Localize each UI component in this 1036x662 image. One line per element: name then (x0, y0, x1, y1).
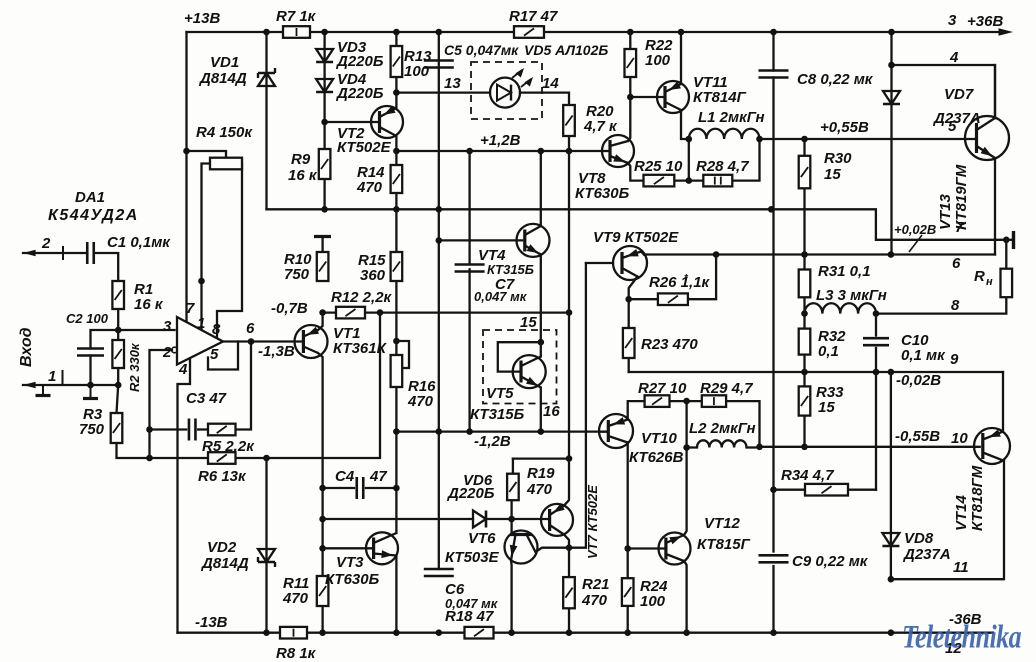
junction bottom rail C6 (436, 629, 443, 636)
wire C3-R5 link (198, 428, 208, 430)
resistor R5 2.2k (208, 424, 236, 436)
wire VT12 base link (628, 547, 666, 549)
inductor L2 2uH (697, 440, 747, 447)
resistor R1 16k (112, 281, 124, 309)
ground chassis bar at output (1006, 239, 1012, 241)
wire R13 bottom to LED line (395, 77, 397, 93)
svg-text:VT12: VT12 (704, 515, 741, 532)
wire VT3 emitter down (395, 556, 397, 633)
svg-text:10: 10 (951, 430, 968, 447)
wire VT2 emitter up (395, 93, 397, 108)
junction -1.2V C7 (466, 428, 473, 435)
junction node209 C5/C6 (436, 206, 443, 213)
wire C8-C9 column (772, 209, 774, 551)
wire R20 column down to node312 (568, 151, 570, 313)
capacitor C4 47 (357, 477, 364, 499)
resistor R11 470 (317, 576, 329, 606)
wire C7 bottom to -1.2V (468, 269, 470, 431)
svg-text:14: 14 (542, 75, 559, 92)
junction R11 bottom rail (319, 629, 326, 636)
wire VT14 collector up (1002, 372, 1004, 432)
resistor R7 1k (283, 26, 310, 38)
resistor R29 4.7 (702, 395, 726, 407)
svg-text:VD1: VD1 (210, 54, 239, 71)
svg-text:VT10: VT10 (641, 430, 678, 447)
wire L2 right link (747, 446, 760, 448)
svg-text:15: 15 (824, 166, 841, 183)
wire op-amp pin2 to C3/R5 line (150, 350, 173, 458)
chassis bar R10 top (321, 237, 323, 253)
wire VT10 collector down (627, 443, 629, 549)
transistor VT5 KT315B (513, 355, 546, 388)
svg-text:КТ630Б: КТ630Б (325, 571, 380, 588)
wire VT6 collector link (536, 548, 570, 552)
wire VT4 emitter down to VT5 (pin15) (540, 255, 542, 343)
wire C3 left link (150, 428, 187, 430)
svg-text:DA1: DA1 (75, 189, 105, 206)
junction -1.2V C6 column (436, 428, 443, 435)
junction pin9 C10 (873, 369, 880, 376)
wire VT7 emitter up (564, 459, 569, 506)
resistor R22 100 (625, 49, 637, 77)
svg-text:+36В: +36В (967, 13, 1003, 30)
svg-text:КТ819ГМ: КТ819ГМ (953, 164, 970, 230)
svg-text:VT7 КТ502Е: VT7 КТ502Е (585, 485, 600, 559)
svg-text:-0,02В: -0,02В (896, 372, 941, 389)
wire VT8 base link (602, 150, 610, 152)
pin 3 output arrow +36V (999, 28, 1014, 35)
svg-text:VD5 АЛ102Б: VD5 АЛ102Б (524, 42, 608, 58)
junction VD6/R19/VT6 (508, 516, 515, 523)
junction VT9 collector/R26/R23 (625, 296, 632, 303)
resistor R21 470 (563, 577, 575, 608)
svg-text:L1 2мкГн: L1 2мкГн (698, 109, 765, 126)
junction C4 right (393, 485, 400, 492)
wire R3 top link (117, 385, 119, 413)
junction bottom rail VD2 (263, 629, 270, 636)
wire VT10 emitter up to R27 (628, 401, 645, 419)
wire R33 top link (803, 372, 805, 386)
junction pin6 VD7 (888, 251, 895, 258)
svg-text:R31 0,1: R31 0,1 (818, 263, 871, 280)
junction bottom rail R21 (566, 629, 573, 636)
wire R33 bottom to 10line (803, 416, 805, 447)
resistor R23 470 (623, 328, 635, 358)
svg-text:470: 470 (407, 393, 434, 410)
wire R23 bottom to pin9 line (628, 358, 630, 372)
junction top rail R13 (393, 29, 400, 36)
pin 1 tick mark (62, 370, 64, 385)
wire VT4 base line (439, 239, 525, 241)
wire VT2 collector down (395, 136, 397, 151)
resistor R31 0.1 (799, 270, 811, 298)
junction node312 VT1 emitter/R10 (319, 309, 326, 316)
svg-text:R4 150к: R4 150к (196, 124, 253, 141)
resistor R32 0.1 (799, 329, 811, 355)
wire VT3 base link (323, 547, 374, 549)
wire VT8 collector up (628, 97, 630, 141)
junction pin1/R4 left (198, 278, 205, 285)
wire R13 top (395, 32, 397, 46)
capacitor C5 0.047uF (424, 61, 454, 68)
wire bias node line y=209 (267, 208, 772, 210)
svg-text:13: 13 (444, 75, 461, 92)
wire feedback line y=458 (117, 443, 209, 458)
wire R25 right to L1 left (674, 179, 689, 181)
diode VD4 D220B (316, 79, 333, 92)
svg-text:7: 7 (186, 300, 195, 317)
pin 1 input arrow (23, 382, 36, 388)
svg-text:R17 47: R17 47 (509, 8, 558, 25)
resistor R33 15 (799, 386, 811, 415)
svg-text:100: 100 (404, 63, 430, 80)
svg-text:15: 15 (818, 399, 835, 416)
svg-text:470: 470 (581, 592, 608, 609)
wire VT1 collector to VD6 line (321, 488, 323, 633)
junction node312 R12 right (377, 309, 384, 316)
wire VD7 branch (890, 32, 892, 255)
ground chassis input 1 (42, 385, 44, 394)
wire R1 bottom to node330 (117, 309, 119, 330)
svg-text:470: 470 (356, 179, 383, 196)
junction R1/C2/pin3 node (115, 327, 122, 334)
wire VT2 base link (325, 121, 380, 123)
pin 2 input arrow (23, 250, 36, 256)
junction bottom rail VT3 (393, 629, 400, 636)
svg-text:C1 0,1мк: C1 0,1мк (107, 234, 171, 251)
svg-text:-1,3В: -1,3В (258, 343, 295, 360)
junction -1.2V VT5 emitter (538, 428, 545, 435)
wire LED line (396, 91, 490, 93)
wire VD8 column (890, 372, 892, 579)
wire R20 bottom down (568, 136, 570, 151)
capacitor C8 0.22uF (759, 71, 789, 78)
junction +1.2V VT4 collector (538, 148, 545, 155)
junction bottom rail VD8 column (888, 629, 895, 636)
junction node209 R9 (321, 206, 328, 213)
junction pin6 R26 loop (713, 251, 720, 258)
inductor L1 2uH (689, 129, 760, 139)
junction R19 node / VT7 emitter (566, 455, 573, 462)
svg-text:R26 1,1к: R26 1,1к (649, 274, 711, 291)
svg-text:4: 4 (949, 49, 959, 66)
svg-text:VD8: VD8 (904, 530, 934, 547)
svg-text:КТ361К: КТ361К (333, 340, 388, 357)
svg-text:8: 8 (212, 321, 221, 338)
svg-text:-0,7В: -0,7В (271, 300, 308, 317)
svg-text:КТ815Г: КТ815Г (697, 536, 751, 553)
junction VD4/R9/VT2 base (321, 119, 328, 126)
svg-text:-1,2В: -1,2В (474, 433, 511, 450)
svg-text:R25 10: R25 10 (634, 158, 683, 175)
svg-text:C5 0,047мк: C5 0,047мк (444, 42, 519, 58)
wire R32 top link (803, 314, 805, 329)
svg-text:R23 470: R23 470 (641, 336, 698, 353)
wire input pin1 line (23, 384, 118, 386)
svg-text:0,047 мк: 0,047 мк (474, 289, 528, 304)
wire R2 bottom (117, 368, 119, 385)
junction +1.2V R20 (566, 148, 573, 155)
svg-text:Д220Б: Д220Б (335, 85, 384, 102)
svg-text:C9 0,22 мк: C9 0,22 мк (792, 553, 869, 570)
transistor VT7 KT502E (541, 503, 573, 536)
svg-text:К544УД2А: К544УД2А (48, 207, 139, 224)
junction top rail VD1 (263, 29, 270, 36)
wire R14 link (395, 151, 397, 165)
svg-text:R6 13к: R6 13к (198, 468, 247, 485)
wire VT13 emitter down to pin6 line (994, 158, 996, 255)
wire VT9 base line (586, 262, 613, 264)
resistor R15 360 (391, 252, 403, 281)
resistor R12 2.2k (336, 307, 365, 319)
resistor R18 47 (465, 627, 494, 639)
svg-text:VT6: VT6 (468, 530, 496, 547)
wire R31 top link (803, 255, 805, 270)
resistor R34 4.7 (805, 484, 848, 496)
wire VT12 emitter up to L2 (684, 448, 687, 536)
svg-text:2: 2 (162, 344, 172, 361)
wire R16 bottom to -1.2V (395, 387, 397, 432)
junction L1 right / +0.55V (756, 136, 763, 143)
wire R24 bottom link (627, 606, 629, 633)
svg-text:750: 750 (79, 421, 105, 438)
svg-text:100: 100 (645, 52, 671, 69)
wire VT5 base loop (498, 342, 541, 371)
svg-text:0,1 мк: 0,1 мк (901, 347, 946, 364)
wire +0.55V line (760, 138, 977, 140)
junction node209 C8 (768, 206, 775, 213)
svg-text:R: R (974, 268, 985, 285)
wire node312 line (323, 311, 569, 313)
junction C5 line / VT4 base (436, 237, 443, 244)
resistor R27 10 (645, 395, 670, 407)
svg-text:470: 470 (526, 481, 553, 498)
svg-text:5: 5 (948, 118, 957, 135)
junction 8line L3 left (801, 310, 808, 317)
svg-text:-0,55В: -0,55В (895, 428, 940, 445)
svg-text:9: 9 (950, 351, 959, 368)
junction bottom rail VT6 (508, 629, 515, 636)
junction bottom rail VT12 (683, 629, 690, 636)
resistor Rn load (1001, 269, 1013, 298)
svg-text:Д237А: Д237А (902, 546, 951, 563)
svg-text:VT9 КТ502Е: VT9 КТ502Е (593, 229, 679, 246)
svg-text:4: 4 (178, 361, 188, 378)
svg-text:L2 2мкГн: L2 2мкГн (689, 420, 756, 437)
svg-text:16: 16 (543, 403, 560, 420)
svg-text:47: 47 (369, 468, 387, 485)
wire input pin2 line (23, 252, 86, 254)
svg-text:C2 100: C2 100 (66, 311, 109, 326)
svg-text:100: 100 (640, 593, 666, 610)
junction bottom rail C9 (770, 629, 777, 636)
transistor VT4 KT315B (517, 224, 550, 257)
junction pin9 VD8 (888, 369, 895, 376)
junction VT6/VT7 collectors R21 (566, 544, 573, 551)
svg-text:C3 47: C3 47 (186, 390, 227, 407)
wire R26 loop (629, 298, 658, 300)
junction inv node / C3 line (146, 426, 153, 433)
wire R16 node to C4 line (395, 432, 397, 488)
wire C4 link left (323, 487, 354, 489)
wire R30 top link (803, 139, 805, 156)
svg-text:1: 1 (48, 368, 56, 385)
wire node330 to op-amp pin3 (118, 329, 174, 331)
wire C10 top link (875, 314, 877, 336)
resistor R4 150k (210, 158, 242, 170)
svg-text:+0,02В: +0,02В (894, 222, 936, 237)
wire R19 top link (512, 459, 514, 474)
junction input common C2 (87, 382, 94, 389)
svg-text:-13В: -13В (195, 614, 228, 631)
wire pin11 line (891, 460, 1004, 579)
wire VT5 collector up (540, 342, 542, 356)
ground chassis input C2 (90, 385, 92, 397)
wire bottom rail mid (307, 632, 465, 634)
capacitor C6 0.047uF (424, 569, 454, 576)
svg-text:VT5: VT5 (486, 385, 514, 402)
wire R4 top tap line (187, 151, 227, 157)
svg-text:Д237А: Д237А (932, 110, 981, 127)
dashed box VD5 optocoupler (471, 62, 542, 119)
svg-text:3: 3 (948, 12, 957, 29)
svg-text:КТ502Е: КТ502Е (337, 139, 392, 156)
resistor R30 15 (799, 156, 811, 189)
junction pin9 R32/R33 (801, 369, 808, 376)
inductor L3 3uH (805, 303, 877, 313)
wire bottom rail left (178, 632, 281, 634)
svg-text:Вход: Вход (18, 327, 35, 367)
junction +0.55V R30 (801, 136, 808, 143)
wire op-amp pin5 loop (208, 342, 238, 370)
wire VT11 emitter to rail (680, 32, 682, 84)
junction 10line L2 right (756, 444, 763, 451)
capacitor C10 0.1uF (863, 338, 889, 345)
svg-text:КТ626В: КТ626В (629, 449, 684, 466)
svg-text:R9: R9 (291, 151, 311, 168)
diode VD8 D237A (882, 533, 899, 546)
junction VT11 base / VT8 collector (627, 94, 634, 101)
svg-text:КТ818ГМ: КТ818ГМ (969, 465, 986, 531)
wire R5 right to output (236, 342, 252, 430)
wire top rail mid segment (R7 to R17) (310, 31, 514, 33)
svg-text:C8 0,22 мк: C8 0,22 мк (797, 71, 874, 88)
wire R34 left link (774, 489, 806, 491)
transistor VT6 KT503E (505, 531, 538, 564)
pin 2 tick mark (62, 246, 64, 260)
svg-text:КТ315Б: КТ315Б (487, 262, 534, 277)
resistor R16 470 (trimmed) (391, 355, 403, 387)
transistor VT12 KT815G (659, 533, 691, 565)
junction node209 R14 (393, 206, 400, 213)
wire R16 tap jog (396, 341, 409, 368)
resistor R13 100 (391, 46, 403, 77)
svg-text:R21: R21 (582, 576, 610, 593)
diode VD6 D220B (473, 511, 486, 528)
capacitor C7 0.047uF (455, 265, 485, 272)
wire VD2 branch (265, 458, 267, 633)
svg-text:КТ315Б: КТ315Б (470, 406, 525, 423)
transistor VT3 KT630B (366, 532, 398, 564)
transistor VT9 KT502E (613, 246, 647, 280)
svg-text:4,7 к: 4,7 к (583, 118, 618, 135)
wire VD3-VD4-R9 chain (323, 32, 325, 209)
wire R34 right leg (848, 489, 876, 491)
resistor R28 4.7 (703, 175, 732, 187)
junction VD6 line left (319, 516, 326, 523)
svg-text:+0,55В: +0,55В (820, 119, 869, 136)
junction top rail VD3 (321, 29, 328, 36)
resistor R17 47 (514, 26, 544, 38)
wire R21 bottom link (568, 608, 570, 632)
svg-text:R29 4,7: R29 4,7 (700, 380, 753, 397)
capacitor C2 100 (77, 349, 104, 356)
svg-text:+1,2В: +1,2В (480, 132, 521, 149)
wire VT9 base column down (569, 263, 586, 548)
svg-text:КТ630Б: КТ630Б (575, 185, 630, 202)
svg-text:8: 8 (951, 297, 960, 314)
svg-text:6: 6 (952, 255, 961, 272)
wire VT4 collector up (540, 151, 542, 226)
svg-text:16 к: 16 к (288, 167, 318, 184)
LED VD5 AL102B (490, 78, 520, 108)
wire node330 to C2 (91, 330, 119, 349)
svg-text:R19: R19 (527, 465, 555, 482)
wire C10 column to R34 (875, 372, 877, 490)
wire C9 bottom (772, 566, 774, 633)
resistor R25 10 (644, 175, 675, 187)
svg-text:VT13: VT13 (937, 193, 954, 230)
wire C10 bottom link (875, 348, 877, 372)
svg-text:R5 2,2к: R5 2,2к (202, 438, 255, 455)
junction top rail C8 (770, 29, 777, 36)
wire LED cathode to R20 (520, 93, 569, 105)
wire R14 bottom (395, 193, 397, 209)
resistor R14 470 (391, 165, 403, 193)
junction feedback/VD2 (263, 455, 270, 462)
resistor R19 470 (507, 474, 519, 501)
resistor R26 1.1k (658, 293, 688, 305)
transistor VT8 KT630B (602, 135, 634, 167)
junction R16 tap node (393, 338, 400, 345)
junction R27/R29/L2 (683, 398, 690, 405)
svg-text:Teletehnika: Teletehnika (902, 620, 1021, 655)
resistor R20 4.7k (563, 105, 575, 136)
svg-text:C4: C4 (335, 468, 355, 485)
transistor VT1 KT361K (295, 325, 328, 358)
pointer +0.02V (909, 235, 922, 252)
wire R27-R29 mid (670, 400, 702, 402)
wire pin6 output line (644, 253, 995, 255)
wire VT1 emitter up (318, 313, 323, 330)
junction bottom rail R24 (624, 629, 631, 636)
wire L1 left leg (688, 139, 690, 181)
wire C7 top (468, 151, 470, 263)
wire pin4 line (892, 65, 996, 118)
svg-text:R2 330к: R2 330к (127, 342, 142, 392)
junction +0.02V Rn (1003, 237, 1010, 244)
wire C8 top (772, 32, 774, 71)
wire +1.2V line (396, 150, 602, 152)
transistor VT13 KT819GM (965, 116, 1009, 160)
wire R28 left link (689, 179, 704, 181)
wire top rail right segment (R17 to +36V arrow) (544, 31, 1004, 33)
junction VT5 collector loop (538, 339, 545, 346)
wire node312 down to R19 node (568, 313, 570, 459)
wire L2 left link (687, 446, 697, 448)
junction +1.2V C7 (466, 148, 473, 155)
capacitor C1 0.1uF (87, 242, 94, 264)
